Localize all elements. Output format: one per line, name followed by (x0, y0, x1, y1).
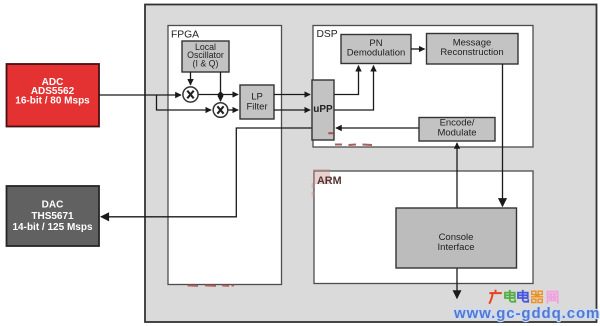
Local Oscillator (I & Q) (182, 41, 229, 72)
board outer box (145, 5, 597, 323)
Message Reconstruction (427, 34, 519, 65)
Console Interface (396, 208, 517, 268)
wire LO to mixer M1 (190, 72, 192, 85)
ARM block (314, 171, 533, 284)
watermark site name glyph 1 (guang, red) (490, 291, 501, 303)
wire Encode/Modulate to uPP (336, 127, 419, 129)
watermark site name glyph 3 (dian, blue) (518, 291, 528, 302)
wire ADC branch to mixer M2 (157, 95, 212, 110)
svg-text:Interface: Interface (438, 242, 475, 253)
watermark site name glyph 5 (wang, pink) (548, 292, 558, 303)
svg-text:ARM: ARM (317, 175, 342, 187)
Encode/Modulate (419, 118, 495, 142)
wire uPP to PN demod (b) (334, 66, 374, 110)
svg-text:uPP: uPP (313, 104, 333, 115)
DAC U-DAC THS5671 (7, 186, 100, 246)
svg-text:FPGA: FPGA (171, 29, 199, 40)
PN Demodulation (341, 35, 411, 64)
ADC U-ADC ADS5562 (7, 64, 100, 127)
wire uPP to PN demod (a) (334, 66, 359, 95)
uPP interface (312, 80, 334, 140)
wire PN demod to Message Reconstruction (411, 48, 425, 50)
wire mixer M2 to LP filter (228, 109, 238, 111)
svg-text:14-bit / 125 Msps: 14-bit / 125 Msps (12, 222, 92, 233)
svg-text:DAC: DAC (42, 200, 64, 211)
wire LP filter to uPP (I) (274, 94, 310, 96)
watermark site name glyph 4 (qi, orange) (532, 291, 543, 302)
watermark dashes FPGA bottom (188, 284, 235, 287)
wire Console Interface output down (456, 268, 458, 298)
DSP block (313, 26, 533, 148)
wire LP filter to uPP (Q) (274, 109, 310, 111)
mixer M2 (213, 103, 228, 118)
wire mixer M1 to LP filter (199, 94, 239, 96)
svg-text:THS5671: THS5671 (31, 211, 74, 222)
svg-text:Reconstruction: Reconstruction (440, 47, 503, 58)
watermark dashes DSP bottom (328, 133, 372, 145)
wire uPP to DAC (101, 128, 312, 217)
wire Message Reconstruction to Console Interface (502, 64, 504, 206)
FPGA block (168, 26, 282, 285)
wire Console Interface to Encode/Modulate (456, 143, 458, 208)
svg-text:Filter: Filter (246, 102, 267, 113)
watermark site name glyph 2 (dian, green) (505, 291, 515, 302)
watermark blotch near ARM (312, 169, 331, 197)
svg-text:Demodulation: Demodulation (347, 47, 406, 58)
wire LO to mixer M2 (220, 72, 222, 101)
node junction LO/M2 (217, 91, 224, 98)
svg-text:DSP: DSP (317, 29, 338, 40)
svg-text:www.gc-gddq.com: www.gc-gddq.com (453, 305, 600, 322)
svg-text:Modulate: Modulate (437, 128, 476, 139)
mixer M1 (183, 87, 198, 102)
svg-text:16-bit / 80 Msps: 16-bit / 80 Msps (15, 95, 90, 106)
wire ADC to mixer M1 (99, 94, 181, 96)
LP Filter (240, 85, 274, 119)
svg-text:(I & Q): (I & Q) (193, 58, 219, 68)
